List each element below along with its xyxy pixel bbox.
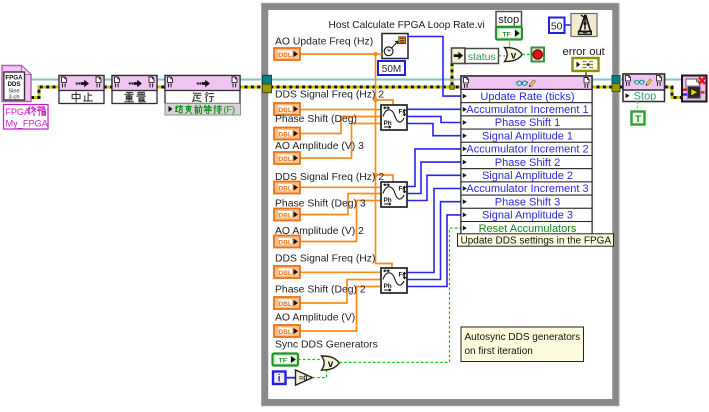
wire error branch to unbundle <box>451 63 454 87</box>
unbundle by name node <box>452 48 466 64</box>
svg-text:DDS: DDS <box>7 81 20 88</box>
wire status to Or gate <box>499 55 506 57</box>
wire error out stub <box>585 71 587 76</box>
wire error to close <box>620 87 682 98</box>
boolean control stop (TF) <box>496 27 522 40</box>
tunnel error (right) <box>612 84 620 92</box>
svg-text:AO Amplitude (V) 3: AO Amplitude (V) 3 <box>275 141 364 152</box>
svg-text:Phase Shift 2: Phase Shift 2 <box>495 157 560 169</box>
svg-text:DBL: DBL <box>278 185 292 192</box>
tunnel FPGA ref (left) <box>263 75 272 84</box>
Or gate (sync) <box>322 356 340 370</box>
svg-text:T: T <box>635 114 641 125</box>
svg-text:AO Update Freq (Hz): AO Update Freq (Hz) <box>275 37 373 48</box>
wire Or to conditional terminal <box>522 54 531 56</box>
boolean constant True <box>632 112 645 125</box>
svg-text:Phase Shift 3: Phase Shift 3 <box>495 196 560 208</box>
wait-until-done parameter box 结束前等待(F) <box>165 104 241 116</box>
svg-text:Ph: Ph <box>384 120 392 127</box>
property row Accumulator Increment 3 <box>461 182 592 195</box>
svg-text:Sync DDS Generators: Sync DDS Generators <box>275 340 378 351</box>
property row Reset Accumulators <box>461 222 592 235</box>
svg-text:DDS Signal Freq (Hz): DDS Signal Freq (Hz) <box>275 254 375 265</box>
wire dds1 accumulator increment <box>407 108 461 110</box>
svg-text:DBL: DBL <box>278 52 292 59</box>
subVI Host Calculate FPGA Loop Rate.vi icon <box>382 34 408 59</box>
wire Or to Reset Accumulators <box>339 228 461 362</box>
subVI DDS generator 1 <box>381 105 407 130</box>
wire Phase Shift 2 <box>300 194 382 215</box>
svg-text:Host Calculate FPGA Loop Rate.: Host Calculate FPGA Loop Rate.vi <box>329 20 485 31</box>
svg-text:DDS Signal Freq (Hz) 2: DDS Signal Freq (Hz) 2 <box>275 90 384 101</box>
svg-text:Ph: Ph <box>384 283 392 290</box>
junction dots on AO Update Freq trunk <box>373 52 377 56</box>
wire FPGA reference (teal) <box>31 79 611 81</box>
svg-text:Stop: Stop <box>634 91 657 103</box>
svg-text:My_FPGA: My_FPGA <box>6 119 49 129</box>
tunnel FPGA ref (right) <box>612 76 620 84</box>
property node FPGA DDS settings <box>461 76 592 235</box>
svg-text:DBL: DBL <box>278 212 292 219</box>
property row Signal Amplitude 3 <box>461 208 592 221</box>
subVI DDS generator 3 <box>381 268 407 293</box>
svg-text:DBL: DBL <box>278 329 292 336</box>
wire AO Update branch dds1 <box>376 100 394 105</box>
wire loop rate to Update Rate <box>408 37 461 97</box>
svg-text:=0: =0 <box>299 373 308 382</box>
svg-text:on first iteration: on first iteration <box>465 346 533 357</box>
wire AO Amplitude 2 <box>300 201 382 242</box>
svg-text:Update Rate (ticks): Update Rate (ticks) <box>480 91 574 103</box>
wire T to Stop node <box>637 102 639 112</box>
property row Update Rate (ticks) <box>461 90 592 103</box>
indicator error out <box>573 58 599 71</box>
svg-text:Signal Amplitude 1: Signal Amplitude 1 <box>482 130 573 142</box>
wire teal to close <box>620 79 682 81</box>
wire dds3 accumulator increment <box>407 189 461 273</box>
svg-text:status: status <box>468 51 496 63</box>
invoke node 重置 (Reset) <box>112 76 157 104</box>
wire stop boolean <box>509 40 511 48</box>
FPGA target icon <box>2 66 31 102</box>
wire i to equals zero <box>286 377 296 379</box>
wire AO Update Freq trunk <box>300 54 393 268</box>
svg-text:Signal Amplitude 3: Signal Amplitude 3 <box>482 210 573 222</box>
svg-text:(F): (F) <box>224 105 236 115</box>
Wait Until Next ms Multiple (metronome) <box>571 14 597 37</box>
FPGA target label My_FPGA <box>4 105 49 130</box>
while loop border <box>265 7 616 403</box>
svg-text:TF: TF <box>502 31 510 38</box>
svg-text:Sine: Sine <box>8 88 19 94</box>
svg-text:v: v <box>511 51 517 62</box>
wire DDS Signal Freq 1 <box>300 109 382 111</box>
wire 50 to wait <box>565 24 572 26</box>
wire AO Amplitude 1 <box>300 124 382 159</box>
property row Accumulator Increment 1 <box>461 103 592 116</box>
svg-text:Accumulator Increment 2: Accumulator Increment 2 <box>466 144 588 156</box>
svg-text:Phase Shift (Deg) 2: Phase Shift (Deg) 2 <box>275 285 366 296</box>
svg-text:Update DDS settings in the FPG: Update DDS settings in the FPGA <box>461 236 612 247</box>
wire equals zero to Or <box>313 370 327 378</box>
property row Phase Shift 2 <box>461 156 592 169</box>
wire DDS Signal Freq 2 <box>300 186 382 188</box>
svg-text:Reset Accumulators: Reset Accumulators <box>479 223 577 235</box>
svg-text:DBL: DBL <box>278 156 292 163</box>
numeric constant 50M <box>378 61 405 75</box>
svg-text:50: 50 <box>551 20 563 32</box>
svg-text:DBL: DBL <box>278 301 292 308</box>
svg-text:Phase Shift 1: Phase Shift 1 <box>495 117 560 129</box>
svg-text:stop: stop <box>498 14 519 26</box>
unbundle element: status <box>465 49 499 64</box>
svg-text:DBL: DBL <box>278 131 292 138</box>
svg-text:50M: 50M <box>382 64 401 75</box>
svg-text:Accumulator Increment 1: Accumulator Increment 1 <box>466 104 588 116</box>
Or gate (stop condition) <box>505 48 523 62</box>
comment Autosync DDS generators on first iteration <box>461 327 584 362</box>
property row Phase Shift 1 <box>461 116 592 129</box>
wire dds3 signal amplitude <box>407 215 461 287</box>
iteration terminal i <box>273 372 286 385</box>
Close FPGA reference <box>682 76 707 102</box>
svg-text:i: i <box>278 374 281 385</box>
wire AO Update to host vi <box>376 53 383 55</box>
property row Phase Shift 3 <box>461 195 592 208</box>
wire Phase Shift 1 <box>300 117 382 134</box>
wire DDS Signal Freq 3 <box>300 271 382 273</box>
svg-text:v: v <box>328 359 334 370</box>
wire dds2 phase shift <box>407 162 461 193</box>
property row Accumulator Increment 2 <box>461 142 592 155</box>
wire AO Update branch dds2 <box>376 175 394 182</box>
svg-text:Ph: Ph <box>384 197 392 204</box>
svg-text:error out: error out <box>563 46 606 58</box>
wire error cluster (yellow/black dashed) <box>31 87 612 98</box>
wire dds3 phase shift <box>407 202 461 280</box>
wire Phase Shift 3 <box>300 280 382 304</box>
svg-text:DBL: DBL <box>278 107 292 114</box>
svg-text:3-ch: 3-ch <box>9 94 20 100</box>
svg-text:Accumulator Increment 3: Accumulator Increment 3 <box>466 183 588 195</box>
svg-text:TF: TF <box>279 357 287 364</box>
comment Update DDS settings in the FPGA <box>458 234 614 246</box>
wire dds2 signal amplitude <box>407 175 461 200</box>
svg-text:DBL: DBL <box>278 239 292 246</box>
svg-text:Phase Shift (Deg): Phase Shift (Deg) <box>275 114 357 125</box>
invoke node 运行 (Run) <box>165 76 240 104</box>
svg-text:FPGA: FPGA <box>6 107 31 117</box>
wire dds1 phase shift <box>407 117 461 123</box>
conditional terminal (stop if true) <box>532 48 545 62</box>
property row Signal Amplitude 1 <box>461 129 592 142</box>
wire dds2 accumulator increment <box>407 149 461 187</box>
property row Signal Amplitude 2 <box>461 169 592 182</box>
label stop <box>496 12 522 27</box>
svg-text:DBL: DBL <box>278 270 292 277</box>
subVI DDS generator 2 <box>381 182 407 207</box>
svg-text:AO Amplitude (V): AO Amplitude (V) <box>275 313 355 324</box>
wire dds1 signal amplitude <box>407 124 461 136</box>
property node Stop <box>623 74 665 102</box>
svg-text:Autosync DDS generators: Autosync DDS generators <box>465 332 581 343</box>
numeric constant 50 <box>549 18 565 34</box>
invoke node 中止 (Abort) <box>59 76 104 104</box>
svg-text:Signal Amplitude 2: Signal Amplitude 2 <box>482 170 573 182</box>
wire AO Amplitude 3 <box>300 287 382 332</box>
tunnel error (left) <box>263 84 272 93</box>
wire sync TF to Or <box>298 359 322 361</box>
equal to 0? node <box>296 370 313 385</box>
